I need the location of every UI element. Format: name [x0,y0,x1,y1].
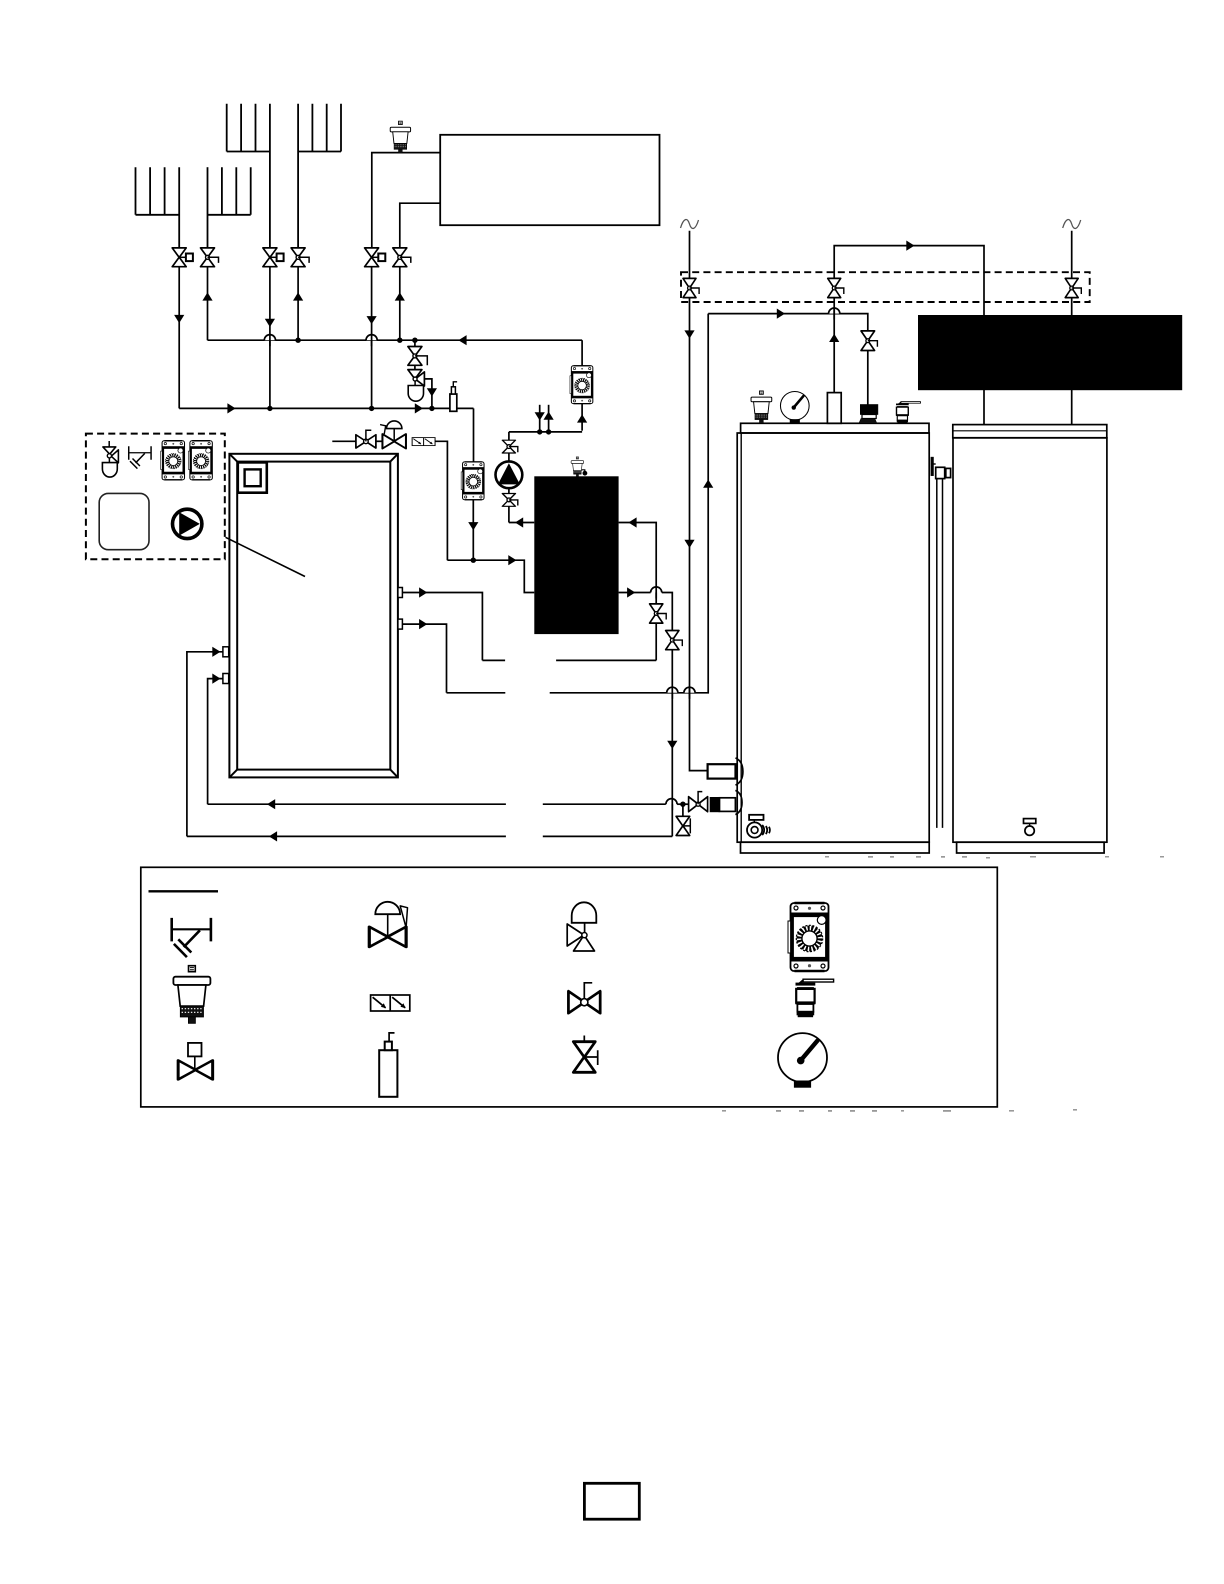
pump isolation valve lower [502,494,517,507]
flow arrow up under FM2 [577,414,587,422]
control sensor dashed enclosure [86,434,225,560]
flow arrow left on y836 [269,831,277,841]
radiator emitter 1 (lower-left comb) [136,167,180,215]
wire: return into tank upper left [187,652,223,837]
pipe break squiggle on x1072 [1063,219,1081,228]
immersion heater boss on tank [238,462,267,492]
flow arrow right into tank lower left [212,674,220,684]
mini flow meter a in enclosure [161,441,185,480]
wire: HX left upper port line [509,522,534,524]
wire: pump top line y432 to FM2 [509,431,582,433]
boiler return flange [735,790,742,814]
hot water cylinder body [953,425,1107,853]
connector pipe to boiler [720,798,736,812]
flow arrow down on x672 [667,741,677,749]
flow arrow up on x400 [395,292,405,300]
pump isolation valve upper [502,440,517,453]
leader line from enclosure to tank [226,537,306,576]
wire: x179 valve to lower manifold [178,267,180,409]
wire: cold feed line y441 [332,440,356,442]
flow arrow down on x372 [367,316,377,324]
wire: radiator 3 drop [269,104,271,248]
zone valve 1 lockshield (x207) [201,248,219,267]
air vent on heat exchanger [571,457,584,477]
zone valve 2 lockshield (x298) [291,248,309,267]
buffer tank outer shell [229,454,398,778]
crossing hump over x672 on y692 [667,687,678,693]
wire: y692 link line right segment up to y313 [550,314,709,693]
boiler flow tapping stub (upper flange) [708,758,743,785]
wire: primary riser x690 [690,231,708,771]
vent outlet dot [582,470,588,476]
pipe break squiggle on x690 [681,219,699,228]
flow arrow down under FM1 [468,522,478,530]
valve B on x672 [666,631,683,650]
radiator emitter 3 (upper comb) [227,104,270,152]
wire: y660 link line left segment [482,659,505,661]
wire: y692 link line left segment [447,692,506,694]
wire: bottom return line y836 right segment [543,835,673,837]
junction dot x372/y408 [369,406,374,411]
crossing hump over x672 on y804 [666,799,677,805]
sensor probe on y408 [450,382,457,412]
flue/condensate tube between tanks [931,457,951,828]
wire: x372 valve to lower manifold [371,267,373,409]
wire: radiator 1 drop [178,167,180,248]
junction dot x270/y408 [267,406,272,411]
wire: boiler return line y804 right segment [543,803,666,805]
legend: Y-strainer symbol [172,918,211,957]
flow arrow up on x708 [703,480,713,488]
isolating valve on x690 in enclosure [683,278,699,297]
flow arrow left on y340 [458,335,466,345]
legend: flow meter [788,903,829,971]
crossing hump over x656 on y592 [651,587,662,593]
wire: radiator 2 drop [207,167,209,248]
flow arrow right on y408 (mid) [415,403,423,413]
gas train dashed enclosure [681,272,1090,302]
wire: y313 line to boiler top valve [708,314,868,331]
zone valve 3 lockshield (x400) [393,248,411,267]
legend: lockshield valve [568,983,600,1013]
flow arrow down on x690 upper [684,330,694,338]
flow arrow right from tank lower stub [419,619,427,629]
boiler body [737,423,929,853]
flow arrow right out of HX lower right [627,587,635,597]
wire: ball valve to 3-way valve [376,440,383,442]
flow arrow right on y245 [906,241,914,251]
flow arrow down on x179 [174,315,184,323]
wire: FM2 top to y340 manifold [581,340,583,366]
wire: boiler return line y804 left segment [208,803,506,805]
flow meter 1 [461,462,484,500]
union black fitting [710,797,720,812]
junction dot x432/y408 [429,406,434,411]
legend: sensor probe [379,1033,397,1097]
crossing hump over x372 [366,335,377,341]
zone valve 1 motorised (x179) [172,248,193,267]
flow arrow right on y313 [777,309,785,319]
junction dot x400/y340 [397,338,402,343]
wire: fan coil top feed with elbow [372,153,440,248]
wire: HX lower right port to x672 riser [619,593,673,631]
wire: HX right upper port line [619,523,657,604]
crossing hump over x690 on y692 [684,687,695,693]
valve A on x656 [650,604,667,623]
check valve on fill line [412,438,435,446]
flow meter 2 [570,366,593,404]
crossing hump over x834 on y313 [829,308,840,314]
wire: V1 to V2 [414,365,416,369]
wire: fan coil lower feed [400,203,440,248]
controller rounded square in enclosure [99,493,149,549]
boiler top nipple [827,393,841,424]
flow arrow left into HX upper right [628,517,636,527]
wire: flow meter 1 down to junction [472,500,474,561]
system fill valve stack: isolating valve V1 [408,340,427,365]
boiler top isolating valve x868 [861,331,877,351]
wire: upper return manifold y340 [208,339,583,341]
legend: pressure relief valve [567,902,596,951]
flow arrow right on y408 (left) [227,403,235,413]
wire: lower supply manifold y408 [179,407,473,409]
page number box [584,1483,639,1519]
boiler auto air vent [751,391,772,423]
wire: pump drop to HX flow port [508,506,510,522]
wire: x298 valve to upper manifold [297,267,299,341]
mini pressure relief valve in enclosure [102,441,118,477]
legend: check valve [371,995,410,1011]
stub pipe A with down arrow [535,405,545,432]
zone valve 3 motorised (x372) [365,248,386,267]
legend: motorised valve with square actuator [178,1043,212,1080]
wire: return into tank lower left [208,679,223,805]
tank lower right stub [398,619,403,629]
junction dot x415/y340 [412,338,417,343]
legend border [141,867,998,1107]
tank upper left stub [223,647,229,657]
fan coil unit box [440,135,659,225]
radiator emitter 2 (lower-left comb B) [208,167,251,215]
wire: valve B long drop to y836 [671,650,673,837]
flow arrow up on x207 [202,292,212,300]
wire: DHW riser x1072 [1071,231,1073,425]
pump icon in enclosure (triangle right) [173,509,202,538]
wire: valve A down to y660 [655,623,657,660]
wire: pump to lower valve [508,488,510,493]
flow arrow up on x834 [829,334,839,342]
wire: x400 valve to upper manifold [399,267,401,341]
boiler drain valve [676,804,690,835]
wire: tank lower stub line to x446 drop [402,624,446,693]
junction dot stub A [537,429,542,434]
boiler top black tapping [859,405,878,424]
tank upper right stub [398,588,403,598]
faint residue marks under legend [722,856,1164,1112]
mini strainer in enclosure [129,446,151,468]
plate heat exchanger (solid) [534,476,618,634]
redacted label block [918,315,1182,390]
crossing hump over x270 [264,335,275,341]
legend title underline [149,890,219,892]
wire: y560 junction line [447,560,534,592]
wire: FM2 riser bottom [581,404,583,431]
stub pipe B with up arrow [544,405,554,432]
wire: y660 link line right segment [556,659,656,661]
tank lower left stub [223,674,229,684]
flow arrow right into tank upper left [212,647,220,657]
cylinder drain valve [1024,819,1036,836]
wire: valve to pump [508,453,510,462]
boiler internal pump [747,815,770,838]
junction dot x683/y804 [680,802,685,807]
junction dot stub B [546,429,551,434]
wire: boiler vent riser x834 [834,246,984,425]
wire: V2 side outlet to y408 [424,379,432,409]
three-way filling valve V2 with tundish bell [408,370,425,402]
legend: motorised valve with dome head [369,902,407,947]
wire: x207 valve to upper manifold [207,267,209,341]
isolating valve on x834 in enclosure [828,278,844,297]
flow arrow left on y804 [267,799,275,809]
zone valve 2 motorised (x270) [263,248,284,267]
boiler return valve assembly [689,792,708,812]
boiler pressure gauge [780,391,809,423]
flow arrow down on x270 [265,319,275,327]
flow arrow up on x298 [293,292,303,300]
wire: tank upper stub line to x482 drop [402,593,482,661]
flow arrow right on y560 [508,555,516,565]
wire: radiator 4 drop [297,104,299,248]
wire: check valve to drop x447 [435,441,447,560]
mini flow meter b in enclosure [188,441,212,480]
wire: bottom return line y836 left segment [187,835,506,837]
wire: pump riser top corner [508,432,510,441]
wire: valve down to boiler tapping [867,351,869,405]
three-way motorised valve with dome [380,421,406,449]
legend: drain cock [796,979,834,1017]
legend: pressure gauge [778,1033,827,1087]
air vent on fan coil feed [390,121,410,153]
isolating valve on x1072 in enclosure [1065,278,1081,297]
flow arrow down on x690 lower [684,540,694,548]
flow arrow left into pump drop [515,517,523,527]
wire: y804 hump to junction [677,803,689,805]
flow arrow down on x432 [427,388,437,396]
legend: double regulating valve [573,1036,597,1073]
flow arrow right from tank upper stub [419,587,427,597]
junction dot x298/y340 [295,338,300,343]
radiator emitter 4 (upper comb) [298,104,341,152]
circulating pump (triangle up) [496,461,523,488]
wire: y408 into flow meter 1 drop [473,408,475,462]
legend: auto air vent symbol [173,966,210,1024]
fill ball valve [356,430,376,448]
wire: x270 valve to lower manifold [269,267,271,409]
boiler top drain cock [896,402,920,423]
junction dot x473/y560 [471,558,476,563]
